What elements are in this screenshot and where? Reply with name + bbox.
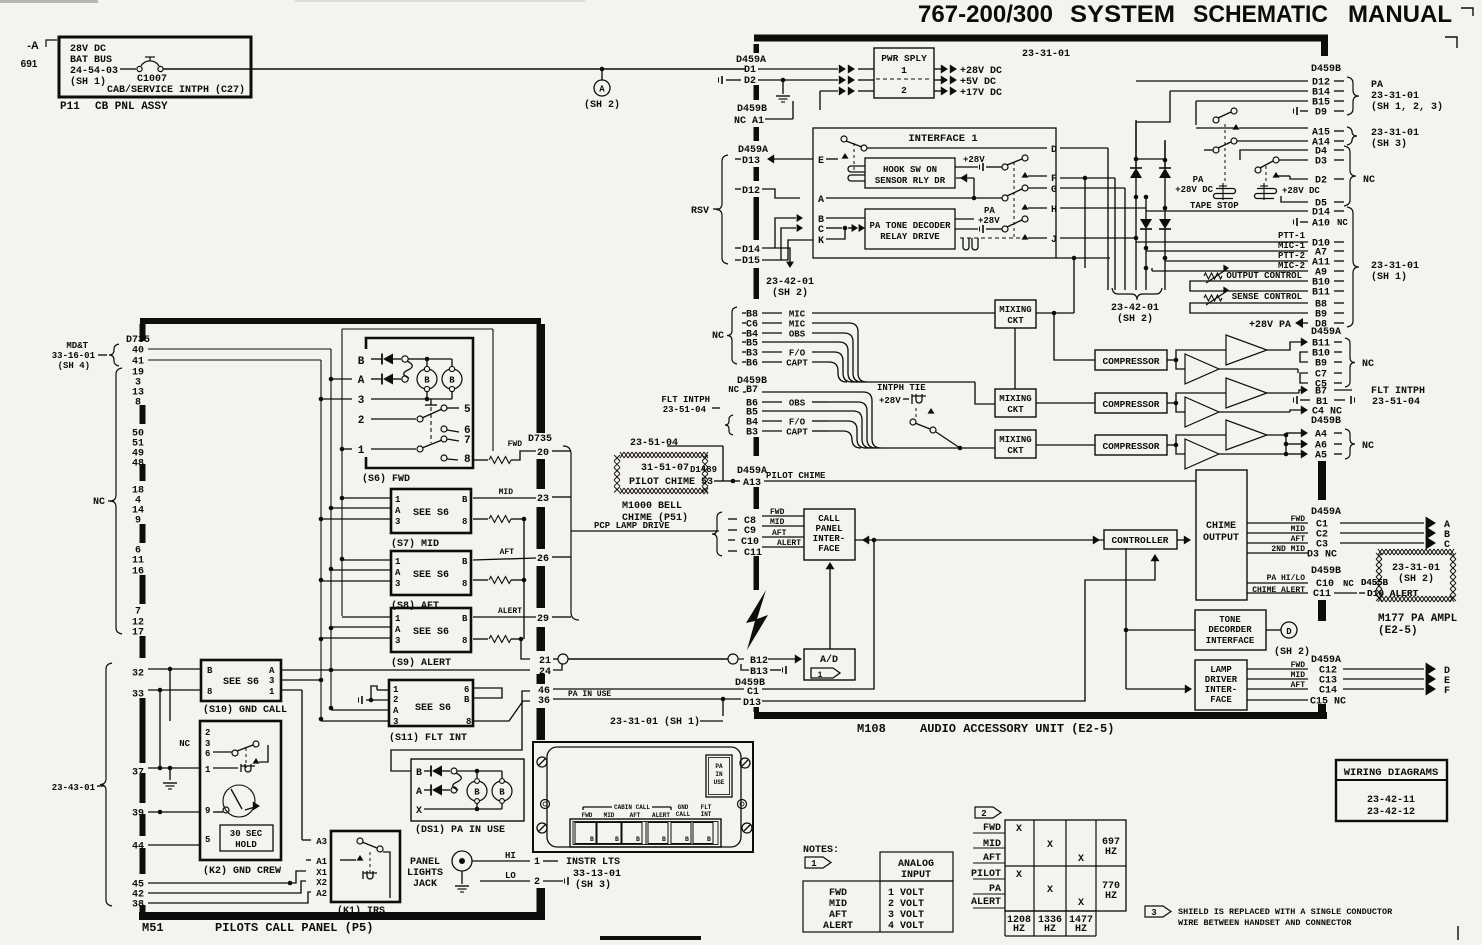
- svg-text:ALERT: ALERT: [971, 897, 1001, 908]
- svg-text:X: X: [1016, 824, 1022, 835]
- svg-text:8: 8: [464, 454, 471, 466]
- svg-text:(E2-5): (E2-5): [1378, 625, 1418, 637]
- svg-text:NOTES:: NOTES:: [803, 845, 839, 856]
- svg-text:MIC: MIC: [789, 320, 806, 330]
- svg-text:HZ: HZ: [1013, 924, 1025, 935]
- svg-text:INTER-: INTER-: [813, 534, 845, 544]
- svg-text:5: 5: [464, 404, 471, 416]
- svg-text:FLT: FLT: [701, 804, 712, 811]
- svg-text:X: X: [1078, 854, 1084, 865]
- svg-text:M177 PA AMPL: M177 PA AMPL: [1378, 613, 1458, 625]
- svg-text:16: 16: [132, 567, 144, 578]
- svg-text:HZ: HZ: [1075, 924, 1087, 935]
- svg-text:-A: -A: [27, 40, 39, 52]
- svg-text:33: 33: [132, 690, 144, 701]
- svg-text:B11: B11: [1312, 288, 1330, 299]
- svg-text:D459A: D459A: [1311, 327, 1341, 338]
- svg-text:NC: NC: [179, 739, 190, 749]
- svg-text:F: F: [1444, 686, 1450, 697]
- svg-text:D14: D14: [742, 245, 760, 256]
- svg-text:NC: NC: [712, 331, 724, 342]
- svg-text:PWR SPLY: PWR SPLY: [881, 53, 927, 64]
- svg-text:AFT: AFT: [983, 853, 1001, 864]
- svg-text:INTPH TIE: INTPH TIE: [877, 383, 926, 393]
- svg-text:FWD: FWD: [508, 440, 523, 449]
- svg-text:37: 37: [132, 768, 144, 779]
- svg-text:C9: C9: [744, 526, 756, 537]
- svg-text:B: B: [464, 695, 470, 705]
- svg-text:CAPT: CAPT: [786, 428, 808, 438]
- svg-text:PTT-2: PTT-2: [1278, 251, 1305, 261]
- svg-text:ANALOG: ANALOG: [898, 859, 934, 870]
- svg-text:B: B: [707, 836, 711, 843]
- svg-text:1: 1: [269, 687, 275, 697]
- svg-text:3: 3: [205, 739, 210, 749]
- svg-text:MID: MID: [604, 812, 615, 819]
- svg-text:(SH 4): (SH 4): [58, 361, 90, 371]
- svg-text:MID: MID: [829, 899, 847, 910]
- svg-text:B: B: [462, 557, 468, 567]
- svg-text:F: F: [1051, 174, 1057, 185]
- svg-text:A: A: [395, 506, 401, 516]
- svg-text:FLT INTPH: FLT INTPH: [661, 395, 710, 405]
- svg-text:PA: PA: [715, 763, 723, 770]
- svg-text:33-13-01: 33-13-01: [573, 869, 621, 880]
- svg-text:D10 ALERT: D10 ALERT: [1367, 588, 1419, 599]
- svg-text:A: A: [393, 706, 399, 716]
- svg-text:(S8) AFT: (S8) AFT: [391, 600, 439, 612]
- svg-text:SHIELD IS REPLACED WITH A SING: SHIELD IS REPLACED WITH A SINGLE CONDUCT…: [1178, 907, 1393, 917]
- svg-text:11: 11: [132, 556, 144, 567]
- svg-text:E: E: [818, 156, 824, 167]
- svg-text:A5: A5: [1315, 451, 1327, 462]
- svg-text:FACE: FACE: [1210, 695, 1232, 705]
- svg-text:K: K: [818, 236, 824, 247]
- svg-text:D3: D3: [1315, 157, 1327, 168]
- svg-text:LIGHTS: LIGHTS: [407, 868, 443, 879]
- svg-text:JACK: JACK: [413, 879, 437, 890]
- svg-text:LAMP: LAMP: [1210, 665, 1232, 675]
- svg-text:F/O: F/O: [789, 418, 806, 428]
- svg-text:(SH 2): (SH 2): [584, 99, 620, 111]
- svg-text:SENSOR RLY DR: SENSOR RLY DR: [875, 176, 946, 186]
- svg-text:CALL: CALL: [818, 514, 840, 524]
- svg-text:D1489: D1489: [690, 465, 717, 475]
- svg-text:NC: NC: [1337, 218, 1348, 228]
- svg-text:PA: PA: [1371, 80, 1383, 91]
- svg-text:3 VOLT: 3 VOLT: [888, 910, 924, 921]
- svg-text:RELAY DRIVE: RELAY DRIVE: [880, 232, 940, 242]
- svg-text:X1: X1: [316, 868, 327, 878]
- svg-text:38: 38: [132, 900, 144, 911]
- svg-text:2ND MID: 2ND MID: [1271, 545, 1305, 554]
- svg-text:1: 1: [358, 445, 365, 457]
- svg-text:A: A: [358, 375, 365, 387]
- svg-text:HOLD: HOLD: [235, 840, 257, 850]
- svg-text:MIXING: MIXING: [999, 305, 1031, 315]
- svg-text:INPUT: INPUT: [901, 870, 931, 881]
- svg-text:3: 3: [395, 636, 400, 646]
- svg-text:(S10) GND CALL: (S10) GND CALL: [203, 704, 287, 716]
- svg-text:C: C: [818, 225, 824, 236]
- svg-text:B: B: [424, 376, 430, 386]
- svg-text:PANEL: PANEL: [410, 857, 440, 868]
- svg-text:(K2) GND CREW: (K2) GND CREW: [203, 865, 281, 877]
- svg-text:1: 1: [534, 857, 540, 868]
- svg-text:20: 20: [537, 448, 549, 459]
- svg-text:1: 1: [395, 495, 401, 505]
- svg-text:B: B: [474, 788, 480, 798]
- svg-text:691: 691: [21, 59, 38, 70]
- svg-text:RSV: RSV: [691, 206, 709, 217]
- svg-text:2: 2: [393, 695, 398, 705]
- svg-text:+28V: +28V: [978, 216, 1000, 226]
- svg-text:C1007: C1007: [137, 74, 167, 85]
- svg-text:(SH 3): (SH 3): [575, 879, 611, 891]
- svg-text:PA IN USE: PA IN USE: [568, 690, 611, 699]
- svg-text:B7: B7: [1315, 387, 1327, 398]
- svg-text:B: B: [662, 836, 666, 843]
- svg-text:MIC-2: MIC-2: [1278, 261, 1305, 271]
- svg-text:B: B: [499, 788, 505, 798]
- svg-text:44: 44: [132, 842, 144, 853]
- svg-text:SENSE CONTROL: SENSE CONTROL: [1232, 292, 1302, 302]
- svg-text:B: B: [449, 376, 455, 386]
- svg-text:24: 24: [539, 667, 551, 678]
- svg-text:D14: D14: [1312, 208, 1330, 219]
- svg-text:B: B: [636, 836, 640, 843]
- svg-text:48: 48: [132, 459, 144, 470]
- svg-text:31-51-07: 31-51-07: [641, 463, 689, 474]
- svg-text:USE: USE: [714, 779, 725, 786]
- svg-text:AFT: AFT: [500, 548, 515, 557]
- svg-text:TONE: TONE: [1219, 615, 1241, 625]
- svg-text:+28V DC: +28V DC: [1175, 185, 1213, 195]
- svg-text:SCHEMATIC: SCHEMATIC: [1193, 1, 1328, 28]
- svg-text:D459B: D459B: [1311, 566, 1341, 577]
- svg-text:C1: C1: [747, 687, 759, 698]
- svg-text:INT: INT: [701, 811, 712, 818]
- svg-text:B: B: [207, 666, 213, 676]
- svg-text:CKT: CKT: [1007, 446, 1024, 456]
- svg-text:41: 41: [132, 357, 144, 368]
- svg-text:INTER-: INTER-: [1205, 685, 1237, 695]
- svg-text:23-31-01: 23-31-01: [1371, 128, 1419, 139]
- svg-text:D735: D735: [528, 434, 552, 445]
- svg-text:J: J: [1051, 235, 1057, 246]
- svg-text:CABIN CALL: CABIN CALL: [614, 804, 650, 811]
- svg-text:D9: D9: [1315, 108, 1327, 119]
- svg-text:INTERFACE 1: INTERFACE 1: [908, 133, 977, 145]
- svg-text:IN: IN: [715, 771, 723, 778]
- svg-text:X2: X2: [316, 878, 327, 888]
- svg-text:23-51-04: 23-51-04: [1372, 397, 1420, 408]
- svg-text:40: 40: [132, 346, 144, 357]
- svg-text:C: C: [1444, 540, 1450, 551]
- svg-text:23-43-01: 23-43-01: [52, 783, 96, 793]
- svg-text:B: B: [358, 356, 365, 368]
- svg-text:DRIVER: DRIVER: [1205, 675, 1238, 685]
- svg-text:PA TONE DECODER: PA TONE DECODER: [869, 221, 951, 231]
- svg-text:8: 8: [462, 517, 467, 527]
- svg-text:D735: D735: [126, 335, 150, 346]
- svg-text:4 VOLT: 4 VOLT: [888, 921, 924, 932]
- svg-text:D455B: D455B: [1361, 578, 1389, 588]
- svg-text:23-31-01: 23-31-01: [1392, 563, 1440, 574]
- svg-text:SEE S6: SEE S6: [413, 627, 449, 638]
- svg-text:9: 9: [205, 806, 210, 816]
- svg-text:MIXING: MIXING: [999, 394, 1031, 404]
- svg-text:HZ: HZ: [1105, 891, 1117, 902]
- svg-text:1 VOLT: 1 VOLT: [888, 888, 924, 899]
- svg-text:17: 17: [132, 628, 144, 639]
- svg-text:CAPT: CAPT: [786, 359, 808, 369]
- svg-text:23-31-01: 23-31-01: [1371, 261, 1419, 272]
- svg-text:A10: A10: [1312, 219, 1330, 230]
- svg-text:(SH 2): (SH 2): [1117, 313, 1153, 325]
- svg-text:32: 32: [132, 669, 144, 680]
- svg-text:8: 8: [462, 579, 467, 589]
- svg-text:LO: LO: [505, 871, 516, 881]
- svg-text:X: X: [1047, 840, 1053, 851]
- svg-text:AFT: AFT: [1291, 535, 1306, 544]
- svg-text:2: 2: [205, 728, 210, 738]
- svg-text:28V DC: 28V DC: [70, 44, 106, 55]
- svg-text:FACE: FACE: [818, 544, 840, 554]
- svg-text:767-200/300: 767-200/300: [918, 1, 1053, 28]
- svg-text:D459B: D459B: [737, 104, 767, 115]
- svg-text:X: X: [1078, 898, 1084, 909]
- svg-text:A: A: [395, 625, 401, 635]
- svg-text:A/D: A/D: [820, 654, 838, 666]
- svg-text:23-42-01: 23-42-01: [1111, 303, 1159, 314]
- svg-text:23-51-04: 23-51-04: [630, 438, 678, 449]
- svg-text:PA: PA: [1193, 175, 1204, 185]
- svg-text:SEE S6: SEE S6: [415, 703, 451, 714]
- svg-text:AUDIO ACCESSORY UNIT (E2-5): AUDIO ACCESSORY UNIT (E2-5): [920, 722, 1114, 736]
- svg-text:24-54-03: 24-54-03: [70, 66, 118, 77]
- svg-text:MID: MID: [499, 488, 514, 497]
- svg-text:ALERT: ALERT: [823, 921, 853, 932]
- svg-text:F/O: F/O: [789, 349, 806, 359]
- svg-text:(SH 2): (SH 2): [1398, 573, 1434, 585]
- svg-text:COMPRESSOR: COMPRESSOR: [1102, 441, 1159, 452]
- svg-text:MID: MID: [1291, 671, 1306, 680]
- svg-text:PILOTS CALL PANEL (P5): PILOTS CALL PANEL (P5): [215, 921, 373, 935]
- svg-text:(S11) FLT INT: (S11) FLT INT: [389, 732, 467, 744]
- svg-text:CHIME: CHIME: [1206, 521, 1236, 532]
- svg-text:SEE S6: SEE S6: [413, 570, 449, 581]
- svg-text:3: 3: [269, 676, 274, 686]
- svg-text:1: 1: [901, 65, 907, 76]
- svg-text:A3: A3: [316, 837, 327, 847]
- svg-text:DECORDER: DECORDER: [1208, 625, 1252, 635]
- svg-text:D459A: D459A: [1311, 507, 1341, 518]
- svg-text:A: A: [269, 666, 275, 676]
- svg-text:SEE S6: SEE S6: [413, 508, 449, 519]
- svg-text:23: 23: [537, 494, 549, 505]
- svg-text:2 VOLT: 2 VOLT: [888, 899, 924, 910]
- svg-text:PANEL: PANEL: [815, 524, 842, 534]
- svg-text:HI: HI: [505, 851, 516, 861]
- svg-text:B: B: [615, 836, 619, 843]
- svg-text:G: G: [1051, 185, 1057, 196]
- svg-text:D12: D12: [742, 186, 760, 197]
- svg-text:A2: A2: [316, 889, 327, 899]
- svg-text:CKT: CKT: [1007, 405, 1024, 415]
- svg-text:23-42-12: 23-42-12: [1367, 807, 1415, 818]
- svg-text:B: B: [462, 614, 468, 624]
- svg-text:(SH 1): (SH 1): [1371, 271, 1407, 283]
- svg-text:B: B: [590, 836, 594, 843]
- svg-text:HZ: HZ: [1105, 847, 1117, 858]
- svg-text:HZ: HZ: [1044, 924, 1056, 935]
- svg-text:21: 21: [539, 656, 551, 667]
- svg-text:CKT: CKT: [1007, 316, 1024, 326]
- svg-text:M51: M51: [142, 921, 164, 935]
- svg-text:NC: NC: [93, 497, 105, 508]
- svg-text:B6: B6: [746, 359, 758, 370]
- svg-text:3: 3: [395, 579, 400, 589]
- svg-text:CAB/SERVICE INTPH (C27): CAB/SERVICE INTPH (C27): [107, 84, 245, 96]
- svg-text:(SH 2): (SH 2): [772, 287, 808, 299]
- svg-text:B3: B3: [746, 428, 758, 439]
- svg-text:2: 2: [981, 809, 986, 819]
- svg-text:1: 1: [818, 671, 823, 680]
- svg-text:D459A: D459A: [1311, 655, 1341, 666]
- svg-text:A: A: [818, 195, 824, 206]
- svg-text:8: 8: [462, 636, 467, 646]
- svg-text:MIXING: MIXING: [999, 435, 1031, 445]
- svg-text:C10: C10: [741, 537, 759, 548]
- svg-text:9: 9: [135, 516, 141, 527]
- svg-text:FLT INTPH: FLT INTPH: [1371, 386, 1425, 397]
- svg-text:2: 2: [901, 85, 907, 96]
- svg-text:PTT-1: PTT-1: [1278, 231, 1306, 241]
- svg-text:D2: D2: [744, 76, 756, 87]
- svg-text:C15 NC: C15 NC: [1310, 697, 1346, 708]
- svg-text:30 SEC: 30 SEC: [230, 829, 263, 839]
- svg-text:D: D: [1051, 145, 1057, 156]
- svg-text:(SH 1): (SH 1): [70, 76, 106, 88]
- svg-text:AFT: AFT: [829, 910, 847, 921]
- svg-text:HOOK SW ON: HOOK SW ON: [883, 165, 937, 175]
- svg-text:CALL: CALL: [676, 811, 691, 818]
- svg-text:C14: C14: [1319, 686, 1337, 697]
- svg-text:3: 3: [358, 395, 365, 407]
- svg-text:D3 NC: D3 NC: [1307, 550, 1337, 561]
- svg-text:INTERFACE: INTERFACE: [1206, 636, 1255, 646]
- svg-text:P11: P11: [60, 101, 80, 113]
- svg-text:23-31-01: 23-31-01: [1022, 49, 1070, 60]
- svg-text:6: 6: [464, 685, 469, 695]
- svg-text:B: B: [416, 768, 422, 779]
- svg-text:3: 3: [1151, 908, 1156, 918]
- svg-text:X: X: [416, 806, 422, 817]
- svg-text:1: 1: [395, 557, 401, 567]
- svg-text:(SH 2): (SH 2): [1274, 646, 1310, 658]
- svg-text:CHIME (P51): CHIME (P51): [622, 512, 688, 524]
- svg-text:A: A: [416, 787, 422, 798]
- svg-text:C11: C11: [744, 548, 762, 559]
- svg-text:D459B: D459B: [1311, 64, 1341, 75]
- svg-text:MIC: MIC: [789, 310, 806, 320]
- svg-text:(S6) FWD: (S6) FWD: [362, 473, 410, 485]
- svg-text:23-51-04: 23-51-04: [663, 405, 707, 415]
- svg-text:MD&T: MD&T: [66, 341, 88, 351]
- svg-text:+28V DC: +28V DC: [1282, 186, 1320, 196]
- svg-text:M108: M108: [857, 722, 886, 736]
- svg-text:CB PNL ASSY: CB PNL ASSY: [95, 101, 168, 113]
- svg-text:X: X: [1047, 885, 1053, 896]
- svg-text:A4: A4: [1315, 430, 1327, 441]
- svg-text:7: 7: [135, 607, 141, 618]
- svg-text:A: A: [599, 85, 605, 95]
- svg-text:7: 7: [464, 435, 471, 447]
- svg-text:CONTROLLER: CONTROLLER: [1111, 535, 1168, 546]
- svg-text:+28V DC: +28V DC: [960, 66, 1002, 77]
- svg-text:PA: PA: [984, 206, 995, 216]
- svg-text:COMPRESSOR: COMPRESSOR: [1102, 399, 1159, 410]
- svg-text:B12: B12: [750, 656, 768, 667]
- svg-text:BAT BUS: BAT BUS: [70, 55, 112, 66]
- svg-text:8: 8: [207, 687, 212, 697]
- svg-text:NC: NC: [1363, 175, 1375, 186]
- svg-text:1: 1: [395, 614, 401, 624]
- svg-text:D: D: [1286, 627, 1292, 637]
- svg-text:PA HI/LO: PA HI/LO: [1267, 574, 1306, 583]
- svg-text:NC: NC: [728, 385, 739, 395]
- svg-text:D459B: D459B: [1311, 416, 1341, 427]
- svg-text:INSTR LTS: INSTR LTS: [566, 857, 620, 868]
- svg-text:CHIME ALERT: CHIME ALERT: [1252, 586, 1305, 595]
- svg-text:1: 1: [811, 859, 817, 869]
- svg-text:6: 6: [205, 749, 210, 759]
- svg-text:SYSTEM: SYSTEM: [1070, 1, 1175, 28]
- svg-text:(K1) IRS: (K1) IRS: [337, 905, 385, 917]
- svg-text:23-31-01: 23-31-01: [1371, 91, 1419, 102]
- svg-text:(SH 3): (SH 3): [1371, 138, 1407, 150]
- svg-text:+17V DC: +17V DC: [960, 88, 1002, 99]
- svg-text:PILOT CHIME 53: PILOT CHIME 53: [629, 477, 713, 488]
- svg-text:8: 8: [135, 398, 141, 409]
- svg-text:FWD: FWD: [1291, 515, 1306, 524]
- svg-text:36: 36: [538, 696, 550, 707]
- svg-text:M1000 BELL: M1000 BELL: [622, 501, 682, 512]
- svg-text:29: 29: [537, 614, 549, 625]
- svg-text:B: B: [685, 836, 689, 843]
- svg-text:FWD: FWD: [1291, 661, 1306, 670]
- svg-text:D1: D1: [744, 65, 756, 76]
- svg-text:OBS: OBS: [789, 399, 806, 409]
- svg-text:C11: C11: [1313, 589, 1331, 600]
- svg-text:23-42-11: 23-42-11: [1367, 795, 1415, 806]
- svg-text:PILOT: PILOT: [971, 869, 1001, 880]
- svg-text:D459A: D459A: [738, 145, 768, 156]
- svg-text:AFT: AFT: [630, 812, 641, 819]
- svg-text:(S9) ALERT: (S9) ALERT: [391, 657, 451, 669]
- svg-text:FWD: FWD: [829, 888, 847, 899]
- svg-text:5: 5: [205, 835, 210, 845]
- svg-text:(DS1) PA IN USE: (DS1) PA IN USE: [415, 824, 505, 836]
- svg-text:B: B: [462, 495, 468, 505]
- svg-text:OUTPUT: OUTPUT: [1203, 533, 1239, 544]
- svg-text:COMPRESSOR: COMPRESSOR: [1102, 356, 1159, 367]
- svg-text:PILOT CHIME: PILOT CHIME: [766, 471, 826, 481]
- svg-text:NC A1: NC A1: [734, 116, 764, 127]
- svg-text:8: 8: [466, 717, 471, 727]
- svg-text:D459A: D459A: [737, 466, 767, 477]
